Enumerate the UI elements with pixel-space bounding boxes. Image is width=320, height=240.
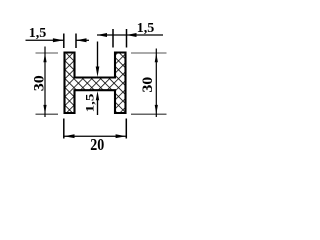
- dim 1,5 top-left: extension tick right: [75, 34, 77, 49]
- svg-text:1,5: 1,5: [29, 26, 47, 41]
- dim 20 bottom: left arrow: [64, 134, 75, 138]
- dim 1,5 top-left: tail line with left arrow: [76, 39, 89, 41]
- dim 1,5 top-right: extension tick left: [112, 29, 114, 48]
- dim 1,5 top-right: leader line: [97, 34, 163, 36]
- web leader from top: vertical line with down arrow to web top: [97, 42, 99, 70]
- dim 20 bottom: extension tick left: [63, 119, 65, 139]
- dim 1,5 top-left: leader line with right arrow: [26, 39, 64, 41]
- dim 1,5 top-left: extension tick left: [63, 34, 65, 49]
- dim 20 bottom: extension tick right: [125, 119, 127, 139]
- svg-text:1,5: 1,5: [137, 21, 155, 36]
- dim 30 right: down arrow: [155, 105, 158, 114]
- svg-text:20: 20: [90, 135, 104, 154]
- svg-text:1,5: 1,5: [83, 93, 96, 112]
- svg-text:30: 30: [140, 76, 156, 92]
- H profile outline with crosshatch section fill: [65, 53, 126, 114]
- dim 30 right: dimension line: [155, 49, 157, 118]
- dim 30 right: up arrow: [155, 53, 158, 62]
- dim 30 left: up arrow: [43, 53, 46, 62]
- dim 30 left: down arrow: [43, 105, 46, 114]
- dim 1,5 top-right: arrow at right tick: [127, 33, 137, 37]
- dim 30 right: bottom extension line: [131, 113, 167, 115]
- dim 20 bottom: dimension line: [64, 135, 127, 137]
- dim 30 right: top extension line: [131, 52, 167, 54]
- dim 30 left: top extension line: [36, 52, 59, 54]
- web leader from below: vertical line with up arrow to web bottom: [97, 100, 99, 116]
- dim 30 left: bottom extension line: [36, 113, 59, 115]
- dim 1,5 top-right: extension tick right: [126, 29, 128, 48]
- H-profile cross-section drawing: [0, 0, 190, 162]
- dim 20 bottom: right arrow: [116, 134, 127, 138]
- dim 1,5 top-right: left arrow at web leader: [97, 33, 107, 37]
- dim 30 left: dimension line: [44, 47, 46, 118]
- svg-text:30: 30: [31, 75, 47, 91]
